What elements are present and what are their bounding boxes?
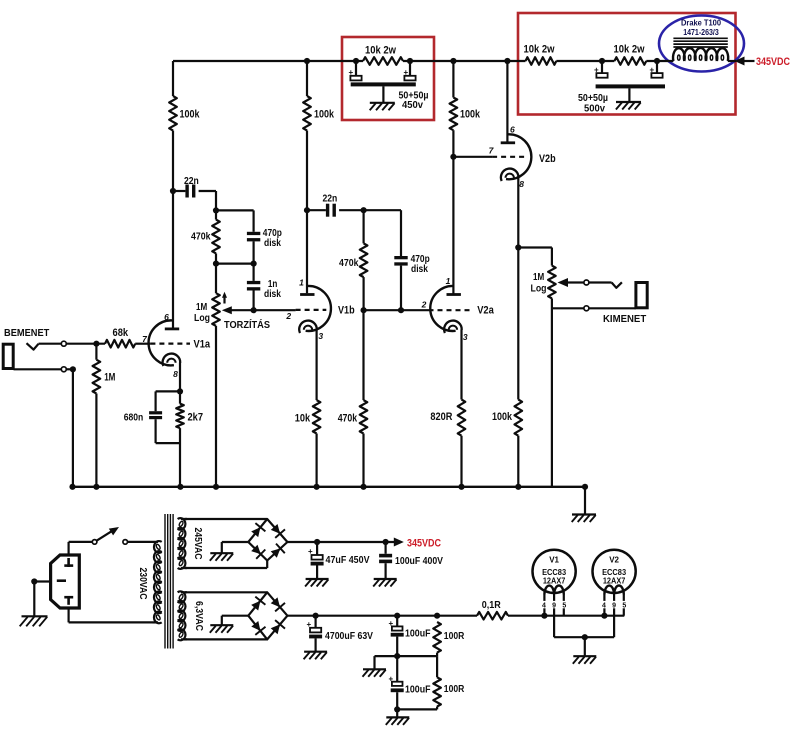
- node pot wiper / 1n junction: [251, 307, 257, 313]
- svg-text:+: +: [308, 547, 313, 556]
- ground (HT bridge): [210, 553, 234, 561]
- svg-text:4: 4: [542, 602, 546, 609]
- capacitor 100uF (lower): [389, 656, 404, 709]
- wire 6.3VAC to bridge top: [185, 591, 267, 593]
- svg-text:+: +: [650, 66, 655, 75]
- wire bottom row: [397, 708, 437, 710]
- wire cap stems (right box): [602, 61, 657, 73]
- capacitor 100uF (upper): [389, 616, 404, 656]
- wire inlet neutral: [69, 608, 153, 622]
- wire HT bridge minus to ground: [222, 542, 249, 553]
- triode V2a grid (dashed): [429, 309, 473, 311]
- wire tone mid row: [216, 263, 254, 265]
- capacitor 4700uF 63V: [307, 616, 323, 651]
- label Drake T100: [681, 19, 722, 37]
- pot wiper arrow (output): [558, 278, 585, 287]
- label V2b pins: [489, 125, 525, 190]
- rectifier bridge (HT): [248, 519, 287, 561]
- svg-text:1M: 1M: [533, 271, 544, 283]
- output jack tip hook: [612, 282, 622, 288]
- wire 6.3VAC to bridge bottom: [185, 638, 267, 640]
- wire cathode to pot: [518, 246, 552, 248]
- svg-text:9: 9: [552, 602, 556, 609]
- svg-text:6,3VAC: 6,3VAC: [193, 601, 205, 631]
- svg-text:6: 6: [164, 312, 169, 322]
- node heater rail V1 pin4: [541, 613, 547, 619]
- node tone mid-right: [251, 261, 257, 267]
- svg-text:1471-263/3: 1471-263/3: [683, 28, 719, 37]
- triode V2a cathode: [444, 321, 462, 333]
- svg-text:2k7: 2k7: [188, 412, 204, 424]
- node bus at x=316.6 (10k): [314, 484, 320, 490]
- resistor 10k 2w (right): [614, 44, 647, 65]
- contact circle (out sleeve): [584, 306, 589, 311]
- wire switch to primary: [128, 541, 153, 543]
- triode V2b grid (dashed): [492, 156, 527, 158]
- svg-text:68k: 68k: [113, 327, 129, 339]
- capacitor 50+50u 500v (plates): [594, 66, 665, 102]
- svg-text:8: 8: [519, 179, 524, 189]
- svg-text:820R: 820R: [430, 411, 452, 423]
- wire tip to jack: [589, 281, 612, 283]
- annotation box (left filter, red): [342, 37, 434, 120]
- label V2a pins: [421, 276, 468, 342]
- resistor 10k 2w (left box): [363, 45, 403, 65]
- svg-text:100uF: 100uF: [405, 684, 431, 696]
- node heater center: [582, 634, 588, 640]
- svg-text:+: +: [389, 674, 394, 683]
- resistor 100k (V1b plate load): [303, 96, 335, 131]
- pot wiper arrow (TORZITAS): [222, 306, 254, 314]
- triode V1b cathode: [299, 321, 317, 333]
- label 100uF (lower): [405, 684, 431, 696]
- wire heater rail: [508, 615, 624, 617]
- ground (left box): [370, 103, 395, 111]
- capacitor 470p disk: [247, 227, 282, 264]
- capacitor 680n (bypass): [124, 411, 162, 423]
- svg-text:disk: disk: [411, 263, 428, 275]
- label pins 4 9 5 (V2): [602, 602, 626, 609]
- wire V2 pin5: [623, 595, 625, 616]
- svg-text:100k: 100k: [492, 411, 513, 423]
- node B+ rail at x=602 (cap2a): [599, 58, 605, 64]
- svg-text:345VDC: 345VDC: [407, 537, 441, 549]
- node B+ rail at x=507.4 (V2b plate): [504, 58, 510, 64]
- svg-text:0,1R: 0,1R: [482, 599, 501, 611]
- ground (heater supply): [386, 717, 410, 725]
- wire sleeve down: [72, 369, 74, 487]
- mains inlet connector: [51, 555, 80, 608]
- svg-text:47uF 450V: 47uF 450V: [326, 554, 370, 566]
- input jack tip hook: [27, 343, 39, 349]
- triode V1a grid (dashed): [150, 343, 190, 345]
- label KIMENET: [603, 313, 647, 325]
- ground (100uF 400V): [373, 579, 397, 587]
- annotation ellipse (choke, blue): [659, 16, 744, 72]
- node B+ rail at x=307 (V1b plate tap): [304, 58, 310, 64]
- svg-text:V2b: V2b: [539, 153, 556, 165]
- svg-text:450v: 450v: [402, 99, 423, 111]
- wire sleeve: [14, 368, 62, 370]
- ground (right box): [616, 102, 641, 110]
- wire cathode loop left: [156, 391, 180, 411]
- resistor 470k (grid series): [339, 210, 367, 310]
- svg-text:V2: V2: [609, 555, 619, 564]
- triode V1a envelope arc: [149, 320, 174, 365]
- svg-text:TORZÍTÁS: TORZÍTÁS: [224, 318, 270, 331]
- node V2b cathode junction: [515, 244, 521, 250]
- svg-text:500v: 500v: [584, 103, 605, 115]
- label 245VAC: [192, 528, 204, 560]
- svg-text:470k: 470k: [339, 257, 359, 269]
- resistor 100R (lower): [433, 656, 464, 709]
- label V1a: [194, 339, 211, 351]
- wire choke to arrow: [728, 60, 736, 62]
- svg-text:9: 9: [612, 602, 616, 609]
- svg-text:+: +: [389, 619, 394, 628]
- ground (4700uF): [304, 652, 328, 660]
- node bus at x=461.5 (820R): [458, 484, 464, 490]
- resistor 1M (input load): [93, 344, 116, 487]
- wire LT rail: [287, 615, 477, 617]
- wire humdinger row: [375, 655, 438, 657]
- label 100uF 400V: [395, 555, 443, 567]
- svg-text:2: 2: [421, 300, 427, 310]
- svg-text:1M: 1M: [104, 371, 115, 383]
- wire to 470p stage2: [364, 210, 401, 256]
- svg-text:disk: disk: [264, 237, 281, 249]
- svg-text:V1: V1: [549, 555, 559, 564]
- svg-text:470k: 470k: [338, 413, 358, 425]
- resistor 10k 2w (mid): [524, 44, 557, 65]
- svg-text:100k: 100k: [180, 109, 201, 121]
- wire cap stems (left box): [356, 61, 410, 76]
- svg-text:KIMENET: KIMENET: [603, 313, 647, 325]
- capacitor 1n disk: [247, 264, 281, 311]
- heater loops V2: [604, 586, 623, 595]
- node bus at x=72.5 (sleeve): [69, 484, 75, 490]
- wire inlet earth: [34, 580, 50, 582]
- svg-text:V2a: V2a: [477, 305, 494, 317]
- triode V2a envelope arc: [430, 286, 455, 331]
- svg-text:245VAC: 245VAC: [192, 528, 204, 560]
- svg-text:12AX7: 12AX7: [543, 577, 566, 586]
- wire V1 pin9: [553, 595, 555, 638]
- wire V1a plate lead: [172, 191, 174, 328]
- wire V2a grid row: [364, 309, 429, 311]
- transformer primary winding 230VAC: [153, 541, 162, 623]
- wire bus ground stub: [584, 487, 586, 514]
- triode V1a plate: [165, 327, 179, 330]
- node sleeve junction: [70, 366, 76, 372]
- wire tip to contact: [39, 343, 62, 345]
- svg-text:12AX7: 12AX7: [603, 577, 626, 586]
- svg-text:3: 3: [463, 332, 468, 342]
- wire to 470p: [216, 210, 254, 231]
- svg-text:+: +: [349, 68, 354, 77]
- triode V1b plate: [300, 293, 314, 296]
- svg-text:230VAC: 230VAC: [137, 568, 149, 600]
- capacitor 470p disk (stage2): [394, 253, 429, 310]
- node humdinger mid: [394, 653, 400, 659]
- node V1b plate / 22n tap: [304, 207, 310, 213]
- svg-text:100uF: 100uF: [405, 628, 431, 640]
- wire 245VAC to bridge top: [185, 518, 267, 520]
- svg-text:3: 3: [318, 331, 323, 341]
- wire 680n bottom: [156, 419, 180, 443]
- svg-text:100R: 100R: [444, 683, 465, 695]
- triode V1b grid (dashed): [296, 309, 327, 311]
- svg-text:10k 2w: 10k 2w: [614, 44, 645, 56]
- triode V2b cathode: [501, 169, 519, 181]
- wire V1b cathode lead: [316, 330, 318, 401]
- heater loops V1: [544, 586, 563, 595]
- capacitor 22n (stage2 coupling): [307, 193, 364, 217]
- ground (humdinger): [363, 669, 387, 677]
- svg-text:+: +: [307, 620, 312, 629]
- wire LT bridge minus to ground: [222, 616, 249, 625]
- node tone mid-left: [213, 261, 219, 267]
- label V1 ECC83 12AX7: [542, 555, 567, 585]
- wire HT output rail: [287, 541, 394, 543]
- svg-text:4: 4: [602, 602, 606, 609]
- resistor 470k (V2a grid leak): [338, 310, 368, 487]
- node B+ rail at x=356 (cap1a): [353, 58, 359, 64]
- switch blade arrow: [97, 527, 119, 541]
- svg-text:10k 2w: 10k 2w: [365, 45, 396, 57]
- label 230VAC: [137, 568, 149, 600]
- wire inlet live up: [69, 542, 93, 557]
- svg-text:22n: 22n: [184, 175, 199, 187]
- capacitor 22n (stage1 coupling): [173, 175, 216, 198]
- svg-text:8: 8: [173, 369, 178, 379]
- node V2a grid right: [398, 307, 404, 313]
- wire V1a plate branch: [172, 61, 174, 191]
- label pins 4 9 5 (V1): [542, 602, 566, 609]
- svg-text:10k: 10k: [295, 413, 311, 425]
- svg-text:100k: 100k: [314, 109, 335, 121]
- annotation box (right filter, red): [518, 13, 736, 115]
- tube V1 envelope (heaters): [533, 550, 576, 593]
- label TORZITAS: [224, 318, 270, 331]
- transformer secondary 245VAC: [178, 518, 187, 569]
- wire V1b plate branch: [306, 61, 308, 210]
- node B+ rail at x=657 (cap2b): [654, 58, 660, 64]
- wire V1 pin5: [563, 595, 565, 616]
- node 22n out junction: [361, 207, 367, 213]
- node bus at x=518.3 (100k): [515, 484, 521, 490]
- arrow from 345VDC (left-pointing): [735, 57, 755, 66]
- node V2a plate / V2b grid tap: [450, 154, 456, 160]
- node B+ rail at x=453.4 (V2a 100k): [450, 58, 456, 64]
- svg-text:6: 6: [510, 125, 515, 135]
- capacitor 100uF 400V: [379, 542, 392, 578]
- node heater rail V2 pin4: [601, 613, 607, 619]
- label 50+50u 500v: [578, 92, 608, 115]
- svg-text:10k 2w: 10k 2w: [524, 44, 555, 56]
- node 1M / 68k junction: [93, 341, 99, 347]
- wire tip contact to grid: [66, 343, 105, 345]
- label 4700uF 63V: [325, 630, 373, 642]
- contact circle (sleeve): [61, 367, 66, 372]
- ground (preamp bus): [572, 515, 596, 523]
- resistor 10k (V1b cathode): [295, 400, 321, 487]
- adjust arrow (up): [222, 292, 227, 304]
- svg-text:+: +: [404, 68, 409, 77]
- wire 68k to V1a grid: [135, 343, 150, 345]
- label V1a pins: [142, 312, 178, 379]
- label 6,3VAC: [193, 601, 205, 631]
- arrow to 345VDC: [394, 538, 404, 547]
- svg-text:BEMENET: BEMENET: [4, 327, 50, 339]
- svg-text:+: +: [594, 66, 599, 75]
- svg-text:100R: 100R: [444, 630, 465, 642]
- ground (mains earth): [20, 616, 48, 626]
- resistor 2k7 (V1a cathode): [176, 391, 203, 486]
- svg-text:Log: Log: [194, 312, 210, 324]
- node bus at x=96.4 (1M): [93, 484, 99, 490]
- svg-text:V1b: V1b: [338, 305, 355, 317]
- wire heater center bus: [554, 636, 614, 638]
- switch contact a: [92, 540, 97, 545]
- contact circle (out tip): [584, 280, 589, 285]
- wire bottom ground stub: [396, 709, 398, 716]
- wire V2b plate lead: [506, 61, 508, 142]
- wire sleeve to ground bus: [66, 368, 73, 370]
- node B+ rail at x=410 (cap1b): [407, 58, 413, 64]
- node HT rail 100uF: [383, 539, 389, 545]
- node bus at x=180.4 (2k7): [177, 484, 183, 490]
- wire earth down: [33, 582, 35, 616]
- capacitor 50+50u 450v (left plates): [349, 68, 416, 102]
- wire V1b plate lead: [306, 210, 308, 293]
- svg-text:5: 5: [562, 602, 566, 609]
- triode V2b plate: [501, 141, 515, 144]
- node LT 100R: [434, 613, 440, 619]
- node heater bottom: [394, 706, 400, 712]
- label V1b pins: [285, 278, 323, 342]
- label V2a: [477, 305, 494, 317]
- wire heater center ground stub: [584, 637, 586, 655]
- resistor 470k (tone): [191, 210, 220, 263]
- node bus at x=363.5 (470k): [360, 484, 366, 490]
- node tone network top: [213, 207, 219, 213]
- svg-text:100uF 400V: 100uF 400V: [395, 555, 443, 567]
- svg-text:1: 1: [299, 278, 304, 288]
- node V1a plate / 22n tap: [170, 188, 176, 194]
- triode V2a plate: [447, 293, 461, 296]
- node V2a grid left: [361, 307, 367, 313]
- resistor 100k (V2b cathode load): [492, 248, 522, 487]
- ground (47uF): [305, 579, 329, 587]
- inductor choke Drake T100: [673, 38, 728, 61]
- label 345VDC (top right): [756, 56, 790, 68]
- svg-text:22n: 22n: [323, 193, 338, 205]
- rectifier bridge (LT): [248, 592, 287, 639]
- triode V1b envelope arc: [306, 286, 331, 331]
- wire B+ rail: [173, 60, 673, 62]
- triode V1a cathode: [163, 354, 181, 366]
- node earth: [31, 578, 37, 584]
- node HT rail 47uF: [314, 539, 320, 545]
- svg-text:disk: disk: [264, 288, 281, 300]
- resistor 68k (grid stopper): [105, 327, 135, 347]
- wire V2 pin4: [603, 595, 605, 616]
- ground (LT bridge): [210, 625, 234, 633]
- svg-text:345VDC: 345VDC: [756, 56, 790, 68]
- input jack sleeve (rect): [3, 344, 13, 368]
- wire V2b cathode lead: [517, 178, 519, 248]
- output jack sleeve (rect): [636, 283, 647, 308]
- resistor 0,1R (heater): [477, 599, 508, 620]
- wire V1 pin4: [543, 595, 545, 616]
- wire 22n to tone network: [215, 191, 217, 210]
- ground (heater center): [573, 656, 597, 664]
- resistor 820R (V2a cathode): [430, 400, 465, 487]
- svg-text:100k: 100k: [460, 109, 481, 121]
- wire V1a cathode lead: [179, 363, 181, 392]
- wire pot bottom to sleeve: [552, 307, 584, 309]
- potentiometer 1M Log (output): [531, 248, 556, 487]
- svg-text:680n: 680n: [124, 412, 144, 424]
- wire V2 pin9: [613, 595, 615, 638]
- node V1a cathode junction: [177, 388, 183, 394]
- svg-text:5: 5: [622, 602, 626, 609]
- wire ground bus (preamp): [72, 486, 585, 488]
- wire 245VAC to bridge bottom: [185, 561, 267, 569]
- node bus at x=585 (gnd stub): [582, 484, 588, 490]
- wire V2a cathode lead: [460, 330, 462, 400]
- switch contact b: [123, 540, 128, 545]
- capacitor 47uF 450V: [308, 542, 324, 578]
- label V1b: [338, 305, 355, 317]
- triode V2b envelope arc: [506, 134, 531, 179]
- transformer core: [165, 514, 173, 649]
- svg-text:2: 2: [285, 311, 291, 321]
- transformer secondary 6.3VAC: [178, 591, 187, 640]
- wire V2a plate branch: [452, 61, 454, 157]
- label 47uF 450V: [326, 554, 370, 566]
- potentiometer 1M Log (TORZITAS): [194, 264, 220, 487]
- svg-text:Drake T100: Drake T100: [681, 19, 722, 28]
- resistor 100k (V2a plate load): [450, 98, 481, 131]
- svg-text:470k: 470k: [191, 231, 211, 243]
- wire humdinger ground stub: [373, 656, 375, 669]
- node bus at x=216 (pot1): [213, 484, 219, 490]
- label 50+50u 450v: [399, 90, 429, 112]
- resistor 100R (upper): [433, 622, 464, 656]
- wire sleeve to jack: [589, 307, 636, 309]
- label 100uF (upper): [405, 628, 431, 640]
- label BEMENET: [4, 327, 50, 339]
- svg-text:Log: Log: [531, 283, 547, 295]
- svg-text:4700uF 63V: 4700uF 63V: [325, 630, 373, 642]
- resistor 100k (V1a plate load): [169, 96, 200, 131]
- label V2 ECC83 12AX7: [602, 555, 627, 585]
- svg-text:V1a: V1a: [194, 339, 211, 351]
- node LT 4700uF: [313, 613, 319, 619]
- svg-text:1: 1: [446, 276, 451, 286]
- wire wiper to V1b grid: [254, 309, 296, 311]
- tube V2 envelope (heaters): [593, 550, 636, 593]
- node LT 100uF: [394, 613, 400, 619]
- wire V2b grid: [453, 156, 492, 158]
- wire V2a plate lead: [452, 157, 454, 294]
- label V2b: [539, 153, 556, 165]
- label 345VDC (psu): [407, 537, 441, 549]
- contact circle (tip): [61, 341, 66, 346]
